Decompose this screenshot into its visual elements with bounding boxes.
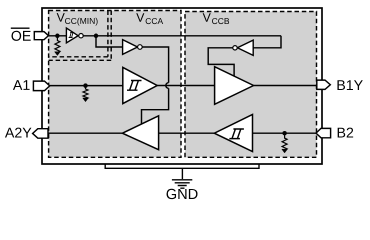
wire A2Y buffer output to pin bbox=[48, 132, 122, 134]
wire branch down to A-side enable inverter bbox=[96, 36, 123, 47]
buffer A2Y output driver (points left) bbox=[122, 116, 158, 150]
wire B1Y buffer output to pin bbox=[254, 85, 318, 87]
wire B2 pin to buffer bbox=[253, 132, 319, 134]
wire A1 buffer output to B1Y buffer bbox=[157, 85, 214, 87]
bubble at B-side enable inverter bbox=[233, 46, 237, 50]
wire A1 pin to buffer bbox=[50, 85, 123, 87]
node enable branch junction bbox=[94, 34, 99, 39]
pin B1Y pentagon bbox=[317, 80, 331, 89]
pin label A1 bbox=[13, 80, 30, 90]
label GND bbox=[167, 189, 198, 199]
wire hop arc over A1 output bbox=[166, 83, 169, 89]
inverter B-side enable (points left) bbox=[237, 40, 253, 55]
node OE pulldown junction bbox=[55, 34, 60, 39]
ground arrow (B2 pulldown) bbox=[282, 149, 288, 153]
pin A2Y pentagon (points left) bbox=[33, 129, 48, 139]
wire A-side enable to A2Y buffer (with hop over A1 line) bbox=[142, 47, 169, 124]
pin B2 pentagon (points left) bbox=[316, 128, 331, 137]
ground arrow (A1 pulldown) bbox=[83, 98, 89, 102]
wire inverter output to junction bbox=[83, 35, 281, 37]
hysteresis glyph (OE inverter) bbox=[69, 33, 75, 38]
VCC(MIN) sub-region border (right and bottom) bbox=[49, 11, 108, 57]
pin label A2Y bbox=[5, 128, 32, 138]
buffer B2 Schmitt (points left) bbox=[214, 115, 252, 152]
node B2 pulldown junction bbox=[282, 131, 287, 136]
ground arrow (OE pulldown) bbox=[55, 52, 61, 56]
inverter OE Schmitt input stage bbox=[66, 28, 78, 43]
resistor OE pull-down bbox=[55, 36, 60, 53]
VCCA inner boundary L-line bbox=[49, 11, 112, 61]
resistor B2 pull-down bbox=[282, 133, 287, 150]
VCCA supply region bbox=[49, 11, 181, 158]
ground symbol GND bbox=[172, 180, 192, 188]
label VCCB bbox=[203, 13, 229, 24]
buffer B1Y output driver bbox=[215, 67, 254, 105]
wire OE line into B region, down and to B-side inverter bbox=[253, 36, 281, 48]
node A1 pulldown junction bbox=[83, 83, 88, 88]
resistor A1 pull-down bbox=[83, 86, 88, 99]
wire OE pin to inverter bbox=[49, 35, 67, 37]
bubble at OE inverter output bbox=[79, 34, 83, 38]
bubble at A-side enable inverter bbox=[138, 45, 143, 50]
pin OE pentagon bbox=[34, 32, 48, 40]
wire B-side enable to B1Y buffer bbox=[208, 48, 234, 76]
buffer A1 Schmitt bbox=[123, 67, 157, 103]
label VCCA bbox=[136, 13, 163, 24]
pin A1 pentagon bbox=[33, 81, 49, 91]
outer device box bbox=[42, 8, 322, 164]
hysteresis glyph (A1 buffer) bbox=[127, 81, 142, 91]
pin label OE (with overline) bbox=[11, 28, 31, 41]
wire B2 buffer output to A2Y buffer bbox=[159, 132, 215, 134]
hysteresis glyph (B2 buffer) bbox=[229, 129, 244, 139]
label VCC(MIN) bbox=[57, 13, 98, 26]
inverter A-side enable bbox=[123, 40, 138, 55]
pin label B2 bbox=[338, 128, 353, 138]
wire GND bracket bbox=[105, 164, 259, 179]
pin label B1Y bbox=[337, 80, 362, 90]
VCCB supply region bbox=[185, 12, 317, 158]
